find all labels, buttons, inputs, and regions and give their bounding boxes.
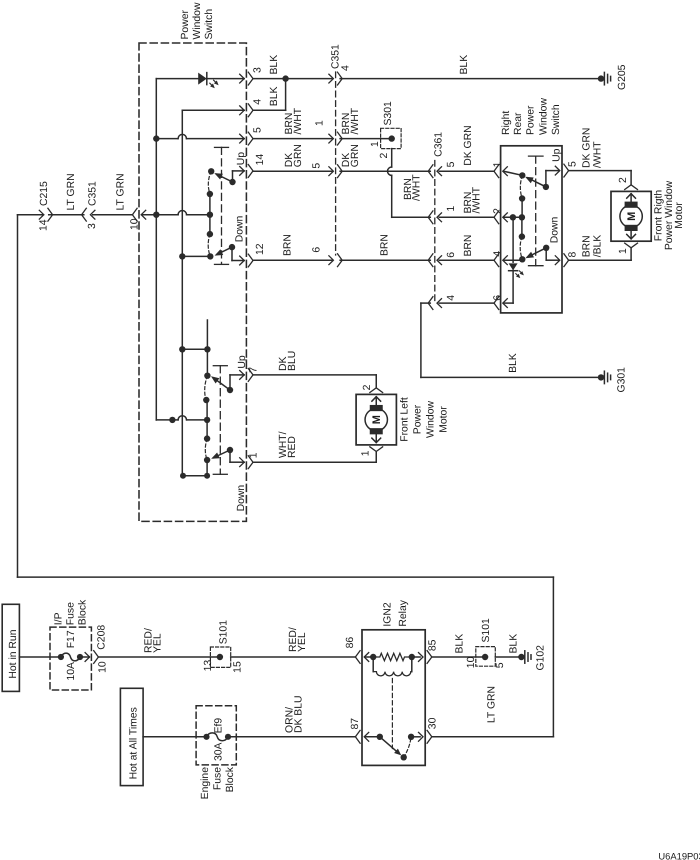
svg-text:Up: Up (237, 355, 248, 369)
svg-text:Rear: Rear (513, 112, 524, 135)
svg-text:10: 10 (466, 656, 477, 668)
svg-text:10: 10 (130, 218, 141, 230)
wire common sw2 (155, 419, 157, 421)
switch 2 top stub (206, 320, 208, 349)
wire BLK return to sw1 down contact (182, 255, 210, 257)
svg-text:14: 14 (255, 154, 266, 166)
wire pin1 to sw2 down arm (229, 450, 231, 462)
switch pin 1 edge connector (240, 458, 245, 467)
svg-text:Switch: Switch (551, 104, 562, 135)
RR switch pin 8 edge connector (555, 256, 560, 265)
svg-text:5: 5 (568, 161, 579, 167)
relay arm dashed bridge (404, 737, 411, 758)
wire BRN/WHT pin5 to C351 (253, 138, 332, 140)
svg-text:Right: Right (501, 111, 512, 135)
relay arm rest contact (401, 754, 407, 760)
svg-text:Fuse: Fuse (213, 767, 224, 790)
wire Hot at All Times to fuse Ef9 (143, 736, 206, 738)
ground G301 (598, 374, 604, 380)
engine fuse block dashed box (196, 706, 236, 765)
svg-text:6: 6 (446, 252, 457, 258)
switch 1 down arm with arrowhead (217, 247, 232, 254)
connector C208 pin 10 (85, 653, 90, 662)
RR switch pin 4 edge connector (503, 256, 508, 265)
svg-text:3: 3 (253, 67, 264, 73)
junction RR pin2 left (510, 214, 516, 220)
Hot at All Times source box (120, 688, 143, 785)
switch 2 down arm pivot (227, 447, 233, 453)
svg-text:G301: G301 (617, 367, 628, 393)
svg-text:G205: G205 (617, 64, 628, 90)
svg-text:1: 1 (618, 248, 629, 254)
wire BLK return to sw2 top (182, 348, 207, 350)
junction common sw2 (169, 417, 175, 423)
switch pin 4 edge connector (240, 106, 245, 115)
svg-text:Up: Up (552, 148, 563, 162)
RR lever dashed link (535, 156, 537, 266)
svg-text:5: 5 (446, 161, 457, 167)
wire DK GRN C361 to RR switch pin 1 (439, 170, 494, 172)
wire fuse to C208 (80, 656, 89, 658)
junction BLK pins 3+4 (282, 75, 288, 81)
svg-text:86: 86 (345, 637, 356, 649)
svg-text:14: 14 (39, 219, 50, 231)
svg-text:/WHT: /WHT (350, 107, 361, 134)
splice S101 (ground side) (476, 647, 496, 667)
wire LT GRN between C351 and switch pin 10 (93, 214, 133, 216)
svg-text:12: 12 (255, 243, 266, 255)
svg-text:2: 2 (362, 384, 373, 390)
wire RR pin5 from up arm (545, 171, 547, 187)
svg-text:DK BLU: DK BLU (293, 695, 304, 733)
switch pin 14 edge connector (240, 167, 245, 176)
switch 1 lower bridge dashes (208, 234, 210, 256)
wire BRN/WHT S301 leg 2 down to C361 row4 (391, 149, 393, 167)
switch 1 up contact (208, 168, 214, 174)
svg-text:S101: S101 (219, 620, 230, 644)
svg-text:1: 1 (249, 452, 260, 458)
wire ORN/DK BLU fuse to relay 87 (228, 736, 355, 738)
svg-text:15: 15 (233, 661, 244, 673)
relay actuator dashed link (391, 679, 393, 749)
relay pin 30 edge connector (419, 732, 424, 741)
RR switch pin 5 edge connector (555, 166, 560, 175)
ground G102 (518, 654, 524, 660)
svg-text:2: 2 (618, 177, 629, 183)
wire BRN/WHT C361 to RR switch pin 2 (439, 216, 494, 218)
svg-text:C361: C361 (434, 132, 445, 157)
svg-text:85: 85 (428, 639, 439, 651)
C351 terminal row2 (329, 134, 334, 143)
svg-text:5: 5 (495, 662, 506, 668)
wire BLK pin3 to C351 (253, 78, 332, 80)
RR switch LED lamp (512, 217, 514, 262)
switch 1 lever dashed link (221, 147, 223, 264)
wire C361 row6 to RR switch pin 6 (439, 302, 494, 304)
svg-text:Block: Block (78, 599, 89, 625)
svg-text:/BLK: /BLK (593, 235, 604, 258)
C351 terminal row3 (329, 167, 334, 176)
svg-text:/WHT: /WHT (471, 186, 482, 213)
right rear power window switch box (501, 146, 562, 313)
svg-text:BLK: BLK (454, 634, 465, 654)
wire BLK row6 down to ground G301 (421, 302, 430, 304)
svg-text:BLK: BLK (459, 55, 470, 75)
switch 2 up arm pivot (227, 387, 233, 393)
junction RR pin2 right (519, 214, 525, 220)
relay coil frame + scallops (372, 657, 374, 672)
wire WHT/RED pin1 to front left motor (253, 461, 376, 463)
svg-text:BRN: BRN (380, 234, 391, 256)
wire LT GRN relay 30 to C215 (page loop) (432, 736, 553, 738)
switch pin 10 edge connector (141, 210, 146, 219)
connector C361 (main body) (434, 161, 436, 305)
svg-text:C208: C208 (96, 625, 107, 650)
ground G205 (598, 75, 604, 81)
switch pin 12 edge connector (240, 256, 245, 265)
switch 1 down arm pivot (229, 244, 235, 250)
junction feed/common sw1 (153, 212, 159, 218)
svg-text:4: 4 (253, 99, 264, 105)
wire LED to pin 3 (207, 78, 244, 80)
wire BRN C361 to RR switch pin 4 (439, 259, 494, 261)
svg-text:RED: RED (287, 436, 298, 458)
wire BLK C351 to ground G205 (340, 78, 601, 80)
svg-text:YEL: YEL (297, 632, 308, 652)
svg-text:Window: Window (538, 98, 549, 135)
LED illumination lamp in power window switch (156, 78, 198, 80)
svg-text:BRN: BRN (582, 235, 593, 257)
connector C215 pin 14 on LT GRN wire (18, 214, 44, 216)
svg-text:BLU: BLU (287, 351, 298, 371)
Hot in Run source box (2, 604, 19, 691)
svg-text:10A: 10A (66, 662, 77, 681)
svg-text:BRN: BRN (283, 234, 294, 256)
switch 2 contact column (206, 400, 208, 439)
RR contact bridge dashes lower (520, 237, 522, 260)
RR up arm pivot (543, 184, 549, 190)
switch 2 common junction (204, 417, 210, 423)
svg-text:Window: Window (192, 2, 203, 39)
svg-text:LT GRN: LT GRN (487, 686, 498, 723)
switch pin 5 edge connector (240, 134, 245, 143)
RR down arm with arrowhead (528, 248, 547, 257)
wire pin12 to sw1 down arm (231, 247, 233, 260)
svg-text:Ef9: Ef9 (214, 718, 225, 734)
svg-text:GRN: GRN (293, 144, 304, 167)
switch 1 contact bridge dashes (208, 171, 211, 194)
svg-text:BLK: BLK (508, 353, 519, 373)
svg-text:5: 5 (312, 163, 323, 169)
svg-text:Down: Down (550, 217, 561, 244)
wire RED/YEL C208 to S101 (98, 656, 219, 658)
svg-text:Window: Window (426, 401, 437, 438)
wire BRN pin12 to C351 (253, 259, 332, 261)
I/P fuse block dashed box (50, 627, 91, 690)
svg-text:13: 13 (203, 660, 214, 672)
svg-text:BLK: BLK (269, 55, 280, 75)
wire pin10 common feed inside switch (142, 214, 157, 216)
svg-text:7: 7 (249, 367, 260, 373)
wire BLK S101 to ground G102 (495, 656, 521, 658)
C351 terminal row1 (329, 74, 334, 83)
connector C351 pin 3 on LT GRN wire (90, 210, 95, 219)
wire RED/YEL S101 to relay 86 (231, 656, 356, 658)
svg-text:Power: Power (525, 105, 536, 135)
svg-text:Power: Power (180, 10, 191, 40)
wire sw2 down contact to BLK return (206, 460, 208, 476)
svg-text:BLK: BLK (509, 634, 520, 654)
svg-text:S301: S301 (383, 101, 394, 125)
splice S101 (run feed) (210, 647, 230, 667)
wire common sw1 (156, 214, 178, 216)
wire Hot in Run to fuse F17 (19, 656, 61, 658)
svg-text:M: M (626, 212, 638, 221)
svg-text:6: 6 (312, 247, 323, 253)
wire pin7 to sw2 up arm (229, 375, 231, 390)
wire RR pin8 from down arm (545, 248, 547, 260)
svg-text:1: 1 (315, 120, 326, 126)
RR switch pin 2 edge connector (503, 213, 508, 222)
svg-text:Hot at All Times: Hot at All Times (129, 707, 140, 779)
svg-text:G102: G102 (535, 645, 546, 671)
RR down arm pivot (543, 245, 549, 251)
svg-text:Motor: Motor (674, 202, 685, 229)
svg-text:Hot in Run: Hot in Run (8, 629, 19, 678)
svg-text:IGN2: IGN2 (382, 602, 393, 626)
wire RR LED to pin 6 (512, 270, 514, 303)
wire BRN C351 to C361 (340, 259, 430, 261)
RR contact column (521, 199, 523, 218)
fuse Ef9 30A (203, 734, 209, 740)
svg-text:4: 4 (341, 65, 352, 71)
C361 terminal row6 (437, 299, 442, 308)
svg-text:2: 2 (379, 153, 390, 159)
relay switch arm (365, 736, 380, 738)
svg-text:Fuse: Fuse (66, 602, 77, 625)
svg-text:/WHT: /WHT (293, 107, 304, 134)
svg-text:Down: Down (235, 216, 246, 243)
svg-text:30: 30 (428, 717, 439, 729)
switch 2 lower bridge dashes (205, 439, 207, 460)
wire BRN/WHT C351 to splice S301 (340, 138, 392, 140)
wire BLK from pin 4 (182, 109, 244, 111)
svg-text:F17: F17 (66, 630, 77, 648)
wire DK BLU pin7 to front left motor (253, 374, 376, 376)
front right power window motor (611, 191, 651, 241)
RR up contact (519, 172, 525, 178)
RR switch pin 1 edge connector (503, 167, 508, 176)
C361 terminal row5 (437, 256, 442, 265)
RR contact bridge dashes upper (520, 175, 522, 198)
svg-text:Switch: Switch (204, 9, 215, 40)
svg-text:3: 3 (87, 223, 98, 229)
svg-text:87: 87 (350, 718, 361, 730)
switch 2 lever dashed link (219, 366, 221, 475)
vertical feed wire inside switch (to LED, pin5, commons) (155, 79, 157, 420)
junction BLK return sw1 (179, 253, 185, 259)
switch 1 contact column (209, 194, 211, 234)
relay coil (365, 656, 373, 658)
svg-text:C215: C215 (39, 181, 50, 206)
svg-text:8: 8 (568, 252, 579, 258)
C361 terminal row3 (437, 167, 442, 176)
svg-text:DK GRN: DK GRN (582, 128, 593, 168)
wire pin14 to sw1 up arm (232, 171, 234, 182)
RR down contact (519, 256, 525, 262)
front left power window motor (356, 394, 396, 445)
switch 2 down arm with arrowhead (213, 450, 230, 458)
junction sw2 top (204, 346, 210, 352)
svg-text:Relay: Relay (398, 599, 409, 626)
switch 1 up arm pivot (229, 179, 235, 185)
RR switch pin1 wire to up contact (504, 171, 523, 175)
switch pin 3 edge connector (240, 74, 245, 83)
svg-text:Front Rigth: Front Rigth (654, 190, 665, 242)
svg-text:Engine: Engine (200, 767, 211, 800)
fuse F17 10A (58, 654, 64, 660)
svg-text:BLK: BLK (269, 86, 280, 106)
RR switch pin 6 edge connector (503, 299, 508, 308)
wire LT GRN between C215 and C351 (49, 214, 84, 216)
power window switch dashed enclosure (139, 43, 246, 521)
wire BRN/WHT pin 5 inside switch (156, 138, 178, 140)
svg-text:1: 1 (361, 450, 372, 456)
svg-text:BRN: BRN (463, 235, 474, 257)
svg-text:Power: Power (413, 404, 424, 434)
svg-text:5: 5 (253, 127, 264, 133)
C351 terminal row5 (329, 256, 334, 265)
junction BLK return upper (179, 346, 185, 352)
switch 1 down contact (207, 253, 213, 259)
wire BRN/BLK to front right motor (569, 259, 631, 261)
svg-text:Motor: Motor (439, 406, 450, 433)
wire DK GRN/WHT to front right motor (569, 170, 631, 172)
wire LT GRN feed: relay 30 loop up left side (17, 215, 19, 577)
svg-text:1: 1 (370, 141, 381, 147)
svg-text:LT GRN: LT GRN (116, 173, 127, 210)
C361 terminal row4 (437, 213, 442, 222)
splice S301 (381, 128, 402, 148)
svg-text:10: 10 (98, 661, 109, 673)
svg-text:S101: S101 (481, 618, 492, 642)
svg-text:YEL: YEL (153, 633, 164, 653)
wire BLK relay 85 to S101 (432, 656, 485, 658)
svg-text:Up: Up (236, 152, 247, 166)
svg-text:M: M (371, 415, 383, 424)
IGN2 relay box (362, 630, 425, 766)
switch 1 up arm with arrowhead (217, 174, 233, 182)
relay pin 85 edge connector (419, 653, 424, 662)
svg-text:/WHT: /WHT (411, 174, 422, 201)
svg-text:1: 1 (446, 206, 457, 212)
wire RR pin4 to down contact (504, 259, 523, 261)
wire DK GRN pin14 to C351 (253, 170, 332, 172)
svg-text:LT GRN: LT GRN (66, 173, 77, 210)
connector C351 (main body) (335, 72, 337, 255)
svg-text:DK GRN: DK GRN (463, 125, 474, 165)
svg-text:C351: C351 (88, 181, 99, 206)
svg-text:30A: 30A (214, 742, 225, 761)
svg-text:Front Left: Front Left (400, 397, 411, 442)
switch 2 up arm with arrowhead (213, 378, 230, 390)
wire RR pin2 to contact column (504, 216, 522, 218)
relay pin 87 edge connector (364, 732, 369, 741)
relay pin 86 edge connector (364, 653, 369, 662)
svg-text:/WHT: /WHT (593, 141, 604, 168)
switch pin 7 edge connector (240, 371, 245, 380)
switch 2 contact bridge dashes (205, 376, 208, 400)
svg-text:U6A19P03: U6A19P03 (658, 851, 700, 860)
svg-text:I/P: I/P (54, 612, 65, 625)
switch 2 down contact (204, 457, 210, 463)
svg-text:4: 4 (446, 295, 457, 301)
RR up arm with arrowhead (528, 178, 546, 187)
switch 1 common junction (207, 212, 213, 218)
wire BLK pin4 joining pin3 run (253, 109, 286, 111)
svg-text:GRN: GRN (350, 144, 361, 167)
switch 2 up contact (204, 373, 210, 379)
svg-text:Down: Down (236, 485, 247, 512)
junction feed/pin5 (153, 135, 159, 141)
wire DK GRN C351 to C361 (340, 170, 430, 172)
svg-text:Block: Block (225, 766, 236, 792)
